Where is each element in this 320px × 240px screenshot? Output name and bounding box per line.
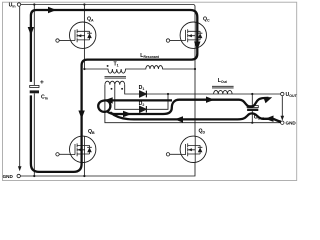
svg-text:GND: GND <box>286 121 297 126</box>
svg-text:GND: GND <box>3 174 14 179</box>
